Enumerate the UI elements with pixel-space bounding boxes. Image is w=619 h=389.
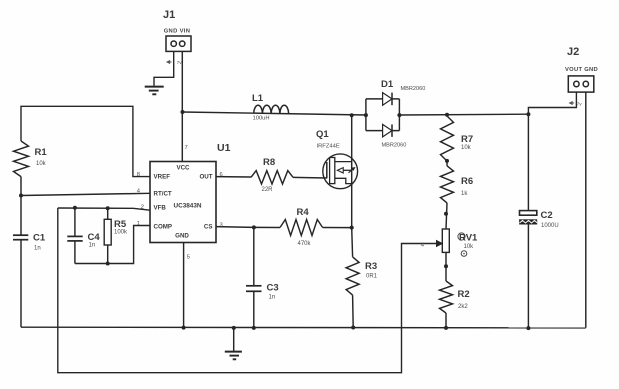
- svg-text:MBR2060: MBR2060: [382, 143, 407, 149]
- svg-text:R8: R8: [263, 157, 275, 168]
- svg-text:R2: R2: [458, 289, 470, 300]
- svg-text:7v: 7v: [177, 60, 183, 66]
- svg-text:C4: C4: [88, 232, 101, 243]
- svg-text:COMP: COMP: [154, 224, 173, 231]
- svg-text:R6: R6: [461, 176, 473, 187]
- svg-text:R5: R5: [114, 219, 127, 230]
- svg-text:R7: R7: [461, 134, 473, 145]
- svg-text:7: 7: [185, 145, 188, 151]
- svg-text:1n: 1n: [34, 246, 41, 252]
- svg-text:GND VIN: GND VIN: [164, 29, 191, 35]
- svg-text:R1: R1: [35, 147, 48, 158]
- svg-text:L1: L1: [252, 93, 264, 104]
- svg-text:C3: C3: [267, 283, 279, 294]
- svg-text:C1: C1: [33, 233, 46, 244]
- svg-text:100uH: 100uH: [253, 116, 270, 122]
- svg-text:8: 8: [137, 172, 140, 178]
- svg-text:1000U: 1000U: [541, 223, 559, 229]
- svg-text:470k: 470k: [298, 241, 312, 247]
- svg-text:VOUT GND: VOUT GND: [565, 67, 598, 73]
- svg-text:D1: D1: [381, 79, 394, 90]
- svg-text:22R: 22R: [262, 187, 274, 193]
- svg-text:10k: 10k: [36, 161, 47, 167]
- svg-text:6: 6: [220, 172, 223, 178]
- svg-text:10k: 10k: [464, 244, 475, 250]
- svg-text:1n: 1n: [269, 295, 276, 301]
- svg-text:OUT: OUT: [199, 174, 212, 181]
- svg-text:J2: J2: [567, 46, 579, 58]
- svg-text:RV1: RV1: [459, 233, 478, 244]
- svg-text:VFB: VFB: [154, 204, 167, 211]
- svg-text:RT/CT: RT/CT: [154, 191, 172, 198]
- svg-text:0R1: 0R1: [366, 274, 378, 280]
- svg-text:2k2: 2k2: [458, 304, 468, 310]
- svg-text:R3: R3: [365, 261, 377, 272]
- svg-text:J1: J1: [163, 9, 175, 21]
- svg-text:VREF: VREF: [154, 174, 171, 181]
- svg-text:U1: U1: [217, 142, 231, 154]
- svg-text:5: 5: [187, 255, 190, 261]
- svg-text:2: 2: [141, 204, 144, 210]
- svg-text:VCC: VCC: [176, 165, 190, 172]
- svg-text:Q1: Q1: [316, 129, 329, 140]
- svg-text:R4: R4: [297, 207, 310, 218]
- svg-text:MBR2060: MBR2060: [401, 86, 426, 92]
- svg-text:10k: 10k: [461, 145, 472, 151]
- svg-text:GND: GND: [175, 233, 189, 240]
- svg-text:1n: 1n: [89, 243, 96, 249]
- svg-text:CS: CS: [204, 224, 213, 231]
- svg-text:IRFZ44E: IRFZ44E: [317, 144, 340, 150]
- svg-text:3: 3: [220, 222, 223, 228]
- svg-text:C2: C2: [541, 210, 553, 221]
- svg-text:UC3843N: UC3843N: [173, 202, 201, 209]
- svg-text:1k: 1k: [461, 191, 468, 197]
- svg-text:7v: 7v: [577, 102, 583, 108]
- svg-text:100k: 100k: [114, 230, 128, 236]
- svg-text:1: 1: [137, 221, 140, 227]
